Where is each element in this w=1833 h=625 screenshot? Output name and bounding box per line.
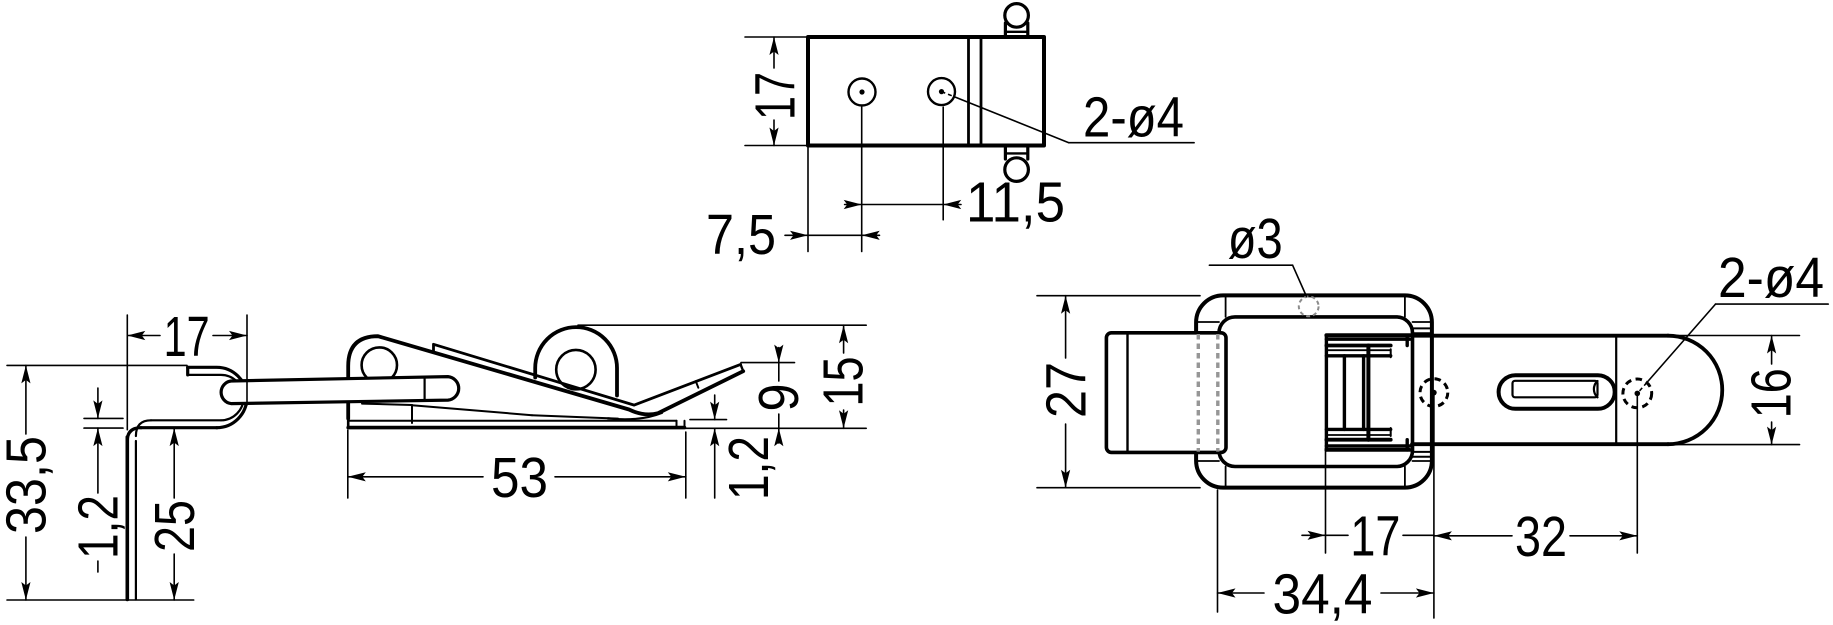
hinge pin bottom cylinder: [1005, 147, 1027, 160]
dim 11,5: [845, 204, 961, 206]
catch bracket corner bend: [127, 428, 141, 441]
dim 9: [741, 348, 795, 444]
bail second wire end: [424, 378, 426, 401]
svg-text:1,2: 1,2: [717, 436, 781, 500]
svg-text:17: 17: [1350, 505, 1400, 569]
dim 17 vertical: [745, 37, 806, 146]
dim 33,5: [7, 365, 194, 600]
wire bail side view: [221, 377, 459, 404]
VIEW 2: side view: [0, 305, 875, 600]
spring arch: [535, 327, 617, 395]
svg-text:15: 15: [812, 357, 876, 407]
catch bracket vertical leg: [127, 437, 136, 600]
svg-text:16: 16: [1740, 368, 1804, 418]
jaw bend line: [1126, 333, 1128, 453]
dim 34,4: [1218, 592, 1434, 594]
strap tongue: [1412, 336, 1722, 445]
dim 15: [578, 325, 866, 428]
svg-text:2-ø4: 2-ø4: [1083, 86, 1184, 150]
svg-text:34,4: 34,4: [1273, 562, 1373, 625]
VIEW 3: latch top view: [1035, 207, 1829, 625]
svg-text:1,2: 1,2: [67, 495, 131, 559]
svg-text:7,5: 7,5: [706, 203, 776, 267]
VIEW 1: catch plate top view: [706, 4, 1194, 267]
strap slot: [1499, 375, 1615, 409]
hidden hole right: [1623, 379, 1652, 408]
jaw hidden edges: [1198, 334, 1218, 452]
lever underside: [362, 404, 618, 423]
ext lines holes: [808, 107, 943, 252]
dim 17 side: [127, 315, 247, 430]
dim 32: [1434, 535, 1637, 537]
leader 2-o4 top view: [1637, 304, 1828, 393]
latch front hook and lever top edge: [348, 336, 743, 418]
dim 7,5: [785, 234, 880, 236]
hinge pin top cylinder: [1005, 23, 1027, 36]
bend connectors: [1196, 295, 1432, 487]
handle underside curve: [608, 364, 743, 419]
plate body: [808, 37, 1044, 146]
hidden wire circle o3: [1299, 297, 1319, 317]
dim 17 top view: [1302, 534, 1434, 536]
wire crossing right edge: [1412, 328, 1432, 456]
dim 1,2 right: [690, 395, 727, 498]
leader o3: [1209, 265, 1306, 296]
svg-text:33,5: 33,5: [0, 436, 58, 534]
svg-text:9: 9: [747, 384, 811, 412]
svg-text:ø3: ø3: [1228, 207, 1283, 271]
dim 25: [173, 428, 175, 600]
body inner window: [1219, 317, 1413, 467]
jaw catch plate: [1106, 333, 1226, 453]
spring end cluster: [1326, 335, 1409, 450]
dim 16: [1669, 336, 1800, 445]
dim 27: [1037, 296, 1200, 488]
catch bracket horizontal part: [141, 426, 217, 429]
hole 1: [849, 79, 876, 106]
latch base plate: [348, 417, 684, 428]
hook pivot hole: [362, 347, 397, 382]
ext lines top view: [1218, 393, 1638, 618]
catch bracket curl: [188, 367, 247, 427]
arch inner circle: [556, 350, 595, 389]
hinge pin top head: [1005, 4, 1029, 28]
bend line 1: [967, 39, 970, 144]
hidden hole left: [1420, 379, 1448, 407]
bend line 2: [980, 39, 983, 144]
dim 53: [348, 430, 686, 498]
svg-text:53: 53: [491, 446, 548, 510]
hole 2: [928, 78, 955, 105]
spring leaf and handle upper edge: [434, 344, 741, 405]
body outer shell: [1196, 295, 1432, 487]
hinge pin bottom head: [1005, 158, 1029, 182]
leader 2-o4: [942, 92, 1195, 143]
svg-text:32: 32: [1515, 505, 1567, 569]
svg-text:11,5: 11,5: [966, 171, 1065, 235]
svg-text:27: 27: [1035, 362, 1099, 418]
svg-text:17: 17: [164, 305, 210, 369]
svg-text:25: 25: [143, 500, 207, 552]
dim 1,2 left: [84, 388, 123, 572]
svg-text:17: 17: [744, 72, 808, 120]
svg-text:2-ø4: 2-ø4: [1718, 246, 1824, 310]
